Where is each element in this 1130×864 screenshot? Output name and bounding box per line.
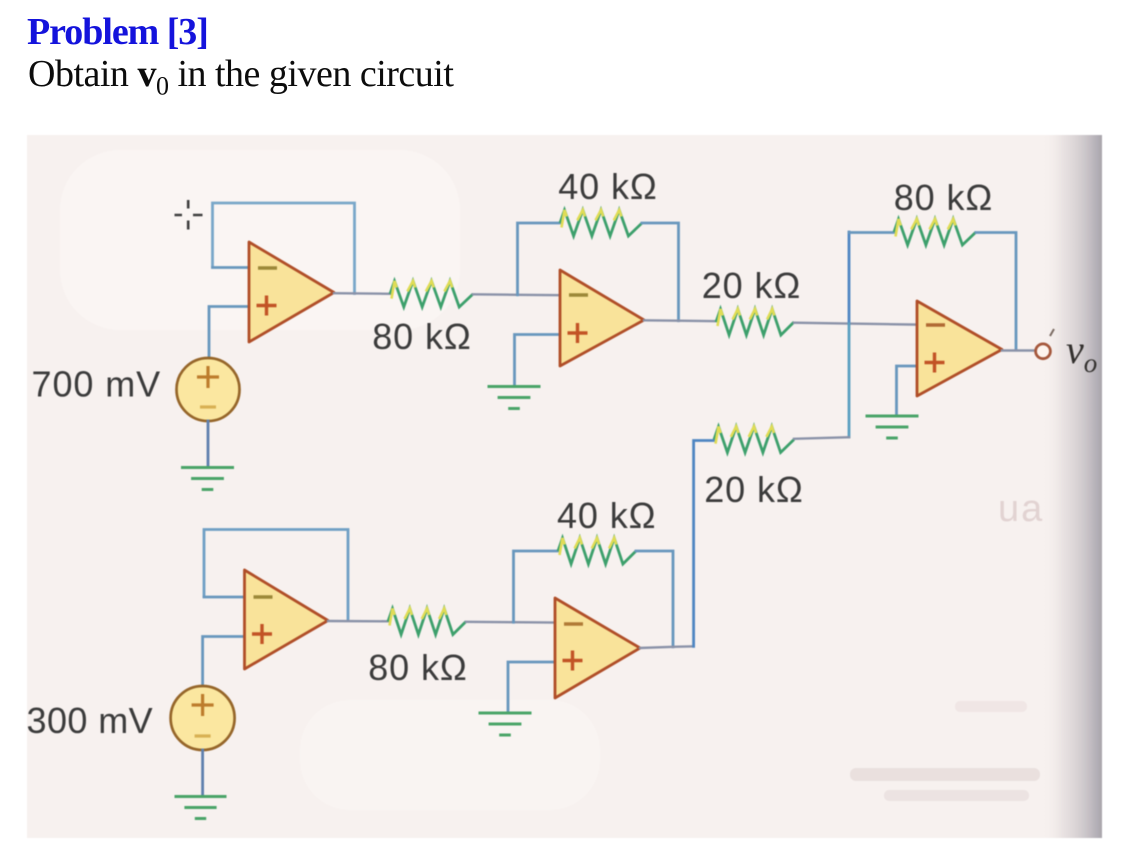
wire R1 to U2 inverting <box>473 293 560 296</box>
wire U1 inverting input <box>213 266 250 269</box>
wire R5 to U5 inverting <box>466 621 555 624</box>
resistor R5 <box>388 609 466 635</box>
op-amp U3 <box>917 301 1002 396</box>
wire U2 feedback left <box>518 223 561 295</box>
wire U4 output to R5 <box>328 620 388 623</box>
wire U5 non-inverting input <box>508 662 555 712</box>
resistor R2 <box>560 210 642 236</box>
wire R3 to U3 inverting <box>794 323 917 325</box>
label R5 80 kΩ <box>368 647 467 688</box>
svg-text:700 mV: 700 mV <box>32 364 161 405</box>
wire V1 to ground <box>207 421 210 467</box>
wire U4 inverting input <box>204 596 245 599</box>
wire U1 non-inverting input <box>209 307 249 358</box>
svg-text:80 kΩ: 80 kΩ <box>894 177 993 218</box>
label 300 mV <box>27 700 153 741</box>
crop-mark artifact <box>175 200 203 230</box>
wire U5 output <box>640 646 694 648</box>
op-amp U5 <box>555 598 640 698</box>
resistor R3 <box>716 309 794 335</box>
ground G3 <box>866 416 919 438</box>
wire node column upper <box>848 232 851 324</box>
wire U3 feedback top-left <box>849 231 894 234</box>
wire U4 non-inverting input <box>203 637 245 686</box>
wire U4 feedback loop <box>204 530 348 621</box>
svg-text:40 kΩ: 40 kΩ <box>558 166 657 207</box>
wire U3 feedback right <box>976 233 1016 351</box>
wire R7 to node column <box>794 437 849 439</box>
label R7 20 kΩ <box>704 469 803 510</box>
source V1 700 mV <box>177 358 240 421</box>
wire U2 output to R3 <box>644 319 716 322</box>
ground G4 <box>175 797 227 819</box>
svg-text:300 mV: 300 mV <box>27 700 153 741</box>
svg-text:40 kΩ: 40 kΩ <box>557 495 656 536</box>
label R1 80 kΩ <box>372 316 471 357</box>
op-amp U4 <box>245 570 329 669</box>
source V2 300 mV <box>171 686 235 750</box>
label R4 80 kΩ <box>894 177 993 218</box>
wire U5 feedback right <box>636 551 673 647</box>
op-amp U2 <box>560 270 644 366</box>
wire U5 feedback left <box>514 551 559 622</box>
node vo terminal <box>1036 329 1054 359</box>
wire V2 to ground <box>201 750 204 796</box>
wire node column lower <box>848 324 851 437</box>
svg-text:20 kΩ: 20 kΩ <box>704 469 803 510</box>
svg-text:80 kΩ: 80 kΩ <box>372 316 471 357</box>
svg-text:20 kΩ: 20 kΩ <box>702 265 801 306</box>
resistor R6 <box>558 538 636 564</box>
resistor R4 <box>894 219 976 245</box>
wire U2 non-inverting input <box>515 335 561 387</box>
svg-text:ua: ua <box>998 488 1044 530</box>
wire U1 output to R1 <box>334 292 390 295</box>
ground G5 <box>479 713 532 735</box>
op-amp U1 <box>249 242 334 342</box>
label R3 20 kΩ <box>702 265 801 306</box>
label R2 40 kΩ <box>558 166 657 207</box>
label R6 40 kΩ <box>557 495 656 536</box>
resistor R1 <box>390 281 473 307</box>
wire U3 non-inverting input <box>897 366 918 414</box>
ground G2 <box>488 387 541 409</box>
resistor R7 <box>714 427 794 453</box>
wire U1 feedback loop <box>213 203 355 294</box>
label 700 mV <box>32 364 161 405</box>
wire U2 feedback right <box>642 223 679 321</box>
svg-text:80 kΩ: 80 kΩ <box>368 647 467 688</box>
wire riser to R7 <box>694 441 714 647</box>
wire U3 output <box>1002 349 1034 351</box>
ground G1 <box>181 468 234 490</box>
label vo <box>1066 327 1097 378</box>
